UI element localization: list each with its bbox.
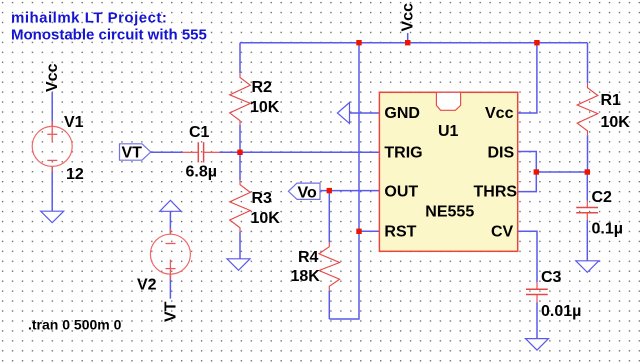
capacitor C2 (576, 189, 623, 238)
wire DIS pin jog (518, 152, 537, 192)
wire R1 bottom to node (587, 135, 589, 172)
wire VT flag to C1 (151, 151, 183, 153)
svg-text:V1: V1 (64, 114, 84, 131)
capacitor C1 (183, 124, 220, 181)
resistor R2 (230, 73, 280, 125)
wire R4 bottom leg (328, 291, 330, 319)
svg-text:C2: C2 (592, 189, 613, 206)
svg-text:0.1µ: 0.1µ (592, 221, 623, 238)
svg-text:DIS: DIS (488, 144, 515, 161)
svg-text:10K: 10K (251, 210, 281, 227)
svg-text:VT: VT (163, 301, 180, 322)
svg-text:10K: 10K (601, 114, 631, 131)
wire OUT pin to Vo flag (320, 190, 379, 192)
junction node R1/C2 (585, 169, 590, 174)
wire GND pin to ground flag (350, 112, 380, 114)
net flag Vo (288, 183, 320, 201)
wire top Vcc rail (240, 42, 588, 44)
wire V2 bottom to VT label (169, 274, 171, 299)
svg-text:R3: R3 (252, 190, 273, 207)
title text (11, 10, 207, 44)
wire OUT node down to R4 (328, 191, 330, 243)
ground R3 (227, 259, 250, 271)
svg-text:mihailmk LT Project:: mihailmk LT Project: (11, 10, 167, 27)
wire C3 bottom to ground (536, 303, 538, 339)
svg-text:6.8µ: 6.8µ (186, 164, 217, 181)
svg-text:R1: R1 (601, 92, 622, 109)
svg-text:NE555: NE555 (425, 204, 474, 221)
wire V1 bottom to ground (51, 166, 53, 211)
IC U1 NE555 (379, 92, 517, 251)
ground V2 (flipped up) (160, 200, 181, 211)
wire V1 Vcc flag to circle (51, 93, 53, 127)
svg-text:Vo: Vo (298, 185, 317, 202)
wire main vertical rail to RST and R4 return (329, 43, 359, 319)
svg-text:Vcc: Vcc (400, 3, 417, 32)
junction node OUT/Vo/R4 (327, 188, 332, 193)
wire C2 bottom to ground (586, 220, 588, 261)
svg-text:V2: V2 (137, 277, 157, 294)
wire R1 top from rail (587, 43, 589, 84)
junction node Vcc pin column (534, 40, 539, 45)
resistor R4 (291, 242, 340, 290)
svg-text:U1: U1 (438, 123, 459, 140)
wire TRIG node to chip TRIG pin (240, 151, 379, 153)
svg-text:C1: C1 (189, 124, 210, 141)
wire Vcc pin to rail (518, 43, 537, 113)
wire C1 right lead to node (220, 151, 241, 153)
svg-text:.tran 0 500m 0: .tran 0 500m 0 (28, 317, 122, 333)
svg-text:GND: GND (384, 105, 420, 122)
wire R3 bottom to ground (239, 232, 241, 259)
svg-text:12: 12 (66, 166, 84, 183)
svg-text:OUT: OUT (384, 184, 418, 201)
svg-text:VT: VT (122, 144, 143, 161)
junction node TRIG/C1 (237, 150, 242, 155)
voltage source V2 (137, 229, 190, 294)
svg-text:C3: C3 (541, 269, 562, 286)
svg-text:18K: 18K (291, 268, 321, 285)
voltage source V1 (32, 114, 84, 183)
svg-text:10K: 10K (250, 99, 280, 116)
capacitor C3 (526, 269, 581, 320)
ground C2 (576, 261, 599, 273)
svg-text:R2: R2 (252, 79, 273, 96)
svg-text:RST: RST (384, 223, 416, 240)
svg-text:THRS: THRS (474, 184, 518, 201)
resistor R1 (577, 83, 630, 135)
ground C3 (526, 339, 549, 351)
wire R2 bottom to TRIG node (239, 125, 241, 152)
wire R2 column top (239, 43, 241, 73)
wire DIS/THRS node to R1/C2 node (536, 171, 587, 173)
svg-text:TRIG: TRIG (384, 144, 422, 161)
wire node down to C2 (586, 172, 588, 201)
junction node DIS/THRS (534, 169, 539, 174)
wire V2 top to flipped ground (169, 211, 171, 234)
wire RST junction to chip RST pin (359, 230, 379, 232)
resistor R3 (230, 180, 281, 232)
svg-text:CV: CV (491, 223, 514, 240)
svg-text:Vcc: Vcc (485, 105, 514, 122)
ground GND pin (rotated left) (337, 103, 349, 124)
junction node Vcc flag (405, 40, 410, 45)
wire R3 column (239, 152, 241, 180)
svg-text:Vcc: Vcc (44, 63, 61, 92)
wire CV pin jog down to C3 (518, 231, 537, 282)
ground V1 (41, 211, 64, 223)
net flag VT (left) (120, 144, 151, 162)
junction node RST (356, 229, 361, 234)
svg-text:0.01µ: 0.01µ (541, 303, 581, 320)
wire Vcc flag stub (407, 33, 409, 43)
junction node rail-vertical (356, 40, 361, 45)
svg-text:Monostable circuit with 555: Monostable circuit with 555 (11, 27, 207, 44)
svg-text:R4: R4 (298, 249, 319, 266)
